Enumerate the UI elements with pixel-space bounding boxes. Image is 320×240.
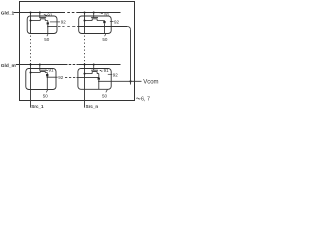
wire drain row right (row 1) (77, 26, 127, 28)
wire Gld_1 right segment (79, 12, 121, 14)
wire Src_n dotted continuation (84, 36, 86, 65)
transistor 91 gate wire (row1 coln) (93, 13, 95, 18)
wire Src_1 dotted continuation (30, 36, 32, 65)
memory array boundary box 6,7 (20, 2, 135, 101)
junction dot Src_1 x Gld_m (30, 64, 32, 66)
wire source (rowm col1) (31, 72, 41, 74)
wire drain row line (row 1) (48, 26, 57, 28)
wire Gld_1 row line (14, 12, 65, 14)
wire below contact (row1 col1) (47, 25, 49, 34)
svg-text:6, 7: 6, 7 (141, 96, 150, 102)
label 50 leader (rowm col1) (46, 90, 47, 93)
wire Gld_m row line (16, 64, 68, 66)
wire drain row line (row m) with 92 leader (47, 76, 57, 78)
svg-text:91: 91 (47, 13, 53, 18)
wire into cell from dashes (rowm coln) (77, 76, 99, 78)
wire drain (row1 coln) (97, 20, 105, 23)
svg-text:91: 91 (104, 12, 110, 17)
wire source (rowm coln) (85, 73, 93, 75)
transistor 91 gate wire (row1 col1) (39, 13, 41, 18)
wire Gld_1 dashed continuation (67, 12, 78, 14)
memory cell 50 (row m, col n) (78, 69, 111, 90)
svg-text:92: 92 (114, 20, 120, 25)
wire Gld_m dashed continuation (69, 64, 79, 66)
transistor 91 gate junction dot (rowm coln) (93, 64, 95, 66)
wire below contact (rowm col1) (46, 77, 48, 90)
label 91 leader tilde (rowm col1) (45, 69, 48, 72)
svg-text:50: 50 (102, 37, 108, 42)
memory cell 50 (row 1, col n) (79, 16, 112, 34)
memory cell 50 (row 1, col 1) (27, 16, 57, 34)
wire drain (rowm col1) (45, 73, 47, 75)
transistor 91 gate wire (rowm col1) (39, 65, 41, 71)
label 50 leader (rowm coln) (106, 90, 108, 93)
wire Src_n column line lower (84, 65, 86, 108)
junction dot source (row1 coln) (84, 20, 86, 22)
svg-text:92: 92 (61, 20, 67, 25)
junction dot Src_1 x Gld_1 (30, 12, 32, 14)
wire source (row1 col1) (31, 20, 41, 22)
svg-text:92: 92 (113, 73, 119, 78)
wire drain row dashed (row m) (65, 76, 75, 78)
transistor 91 channel (row1 col1) (40, 19, 46, 21)
transistor 91 gate wire (rowm coln) (93, 65, 95, 71)
label 91 leader tilde (rowm coln) (100, 69, 103, 72)
junction dot source (rowm col1) (30, 72, 32, 74)
contact 92 square (rowm coln) (98, 78, 100, 80)
label 91 leader tilde (row1 col1) (44, 14, 47, 17)
wire drain (rowm coln) (97, 74, 99, 78)
junction dot source (row1 col1) (30, 20, 32, 22)
transistor 91 gate junction dot (row1 col1) (39, 12, 41, 14)
svg-text:Src_1: Src_1 (31, 104, 44, 109)
svg-text:50: 50 (44, 37, 50, 42)
contact 92 square (rowm col1) (46, 74, 48, 76)
svg-text:50: 50 (102, 94, 108, 99)
svg-text:91: 91 (49, 67, 55, 72)
transistor 91 gate bar (rowm col1) (39, 69, 46, 71)
wire below contact (rowm coln) (98, 80, 100, 90)
transistor 91 channel (rowm col1) (40, 71, 46, 72)
wire Src_n column line upper (84, 13, 86, 34)
label 50 leader (row1 coln) (105, 34, 106, 36)
transistor 91 channel (rowm coln) (92, 72, 98, 74)
wire drain row dashed (row 1) (58, 26, 75, 28)
label 6,7 leader tilde (136, 98, 140, 99)
junction dot drain line (rowm col1) (47, 76, 49, 78)
wire Src_1 column line lower (30, 65, 32, 108)
wire Gld_m right segment (79, 64, 121, 66)
contact 92 square (row1 col1) (47, 22, 49, 24)
wire Vcom bus vertical (130, 30, 132, 85)
svg-text:91: 91 (104, 68, 110, 73)
junction dot drain line (row1 coln) (104, 26, 106, 28)
label 92 leader (row1 coln) (110, 21, 114, 23)
junction dot Vcom bus (129, 80, 131, 82)
svg-text:92: 92 (58, 75, 64, 80)
wire below contact (row1 coln) (104, 23, 106, 33)
junction dot Src_n x Gld_m (84, 64, 86, 66)
contact 92 square (row1 coln) (103, 21, 105, 23)
svg-text:Gld_1: Gld_1 (1, 11, 15, 17)
transistor 91 gate junction dot (row1 coln) (93, 12, 95, 14)
label 50 leader (row1 col1) (47, 34, 48, 36)
transistor 91 gate bar (rowm coln) (91, 69, 98, 71)
svg-text:50: 50 (43, 93, 49, 98)
wire drain row m to Vcom (99, 80, 142, 82)
wire Src_1 column line upper (30, 13, 32, 34)
label 91 leader tilde (row1 coln) (100, 12, 103, 15)
transistor 91 gate bar (row1 col1) (39, 17, 46, 19)
svg-text:Vcom: Vcom (143, 80, 158, 86)
svg-text:Src_n: Src_n (86, 104, 99, 109)
svg-text:Gld_m: Gld_m (1, 63, 16, 69)
label 92 leader (rowm coln) (108, 73, 112, 75)
transistor 91 gate bar (row1 coln) (91, 17, 98, 19)
transistor 91 channel (row1 coln) (92, 19, 98, 21)
junction dot source (rowm coln) (84, 73, 86, 75)
wire drain (row1 col1) (45, 21, 48, 23)
wire source (row1 coln) (85, 20, 93, 22)
junction dot Src_n x Gld_1 (84, 12, 86, 14)
memory cell 50 (row m, col 1) (26, 69, 56, 90)
transistor 91 gate junction dot (rowm col1) (39, 64, 41, 66)
wire Vcom corner curve (127, 27, 131, 30)
junction dot drain line (row1 col1) (47, 26, 49, 28)
junction dot drain line (rowm coln) (98, 81, 100, 83)
label 92 leader (row1 col1) (50, 21, 60, 23)
